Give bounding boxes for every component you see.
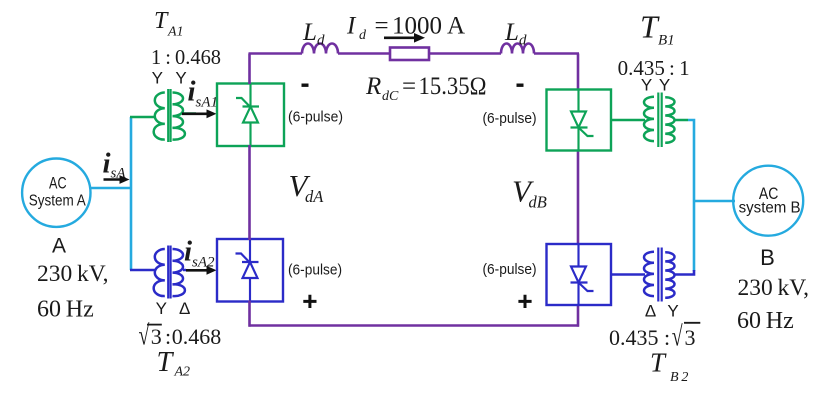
transformer TA2 core (168, 246, 170, 299)
svg-text:T: T (154, 8, 169, 34)
transformer TA2 label (157, 347, 191, 380)
bus A frequency label 60 Hz (37, 297, 94, 323)
U3 6-pulse label (483, 110, 537, 127)
transformer TA1 ratio label 1:0.468 (151, 45, 221, 69)
svg-text:Y: Y (641, 76, 652, 95)
wire: DC bus down to U3 (577, 54, 580, 90)
svg-text:R: R (365, 73, 381, 100)
svg-text:i: i (184, 236, 192, 268)
voltage label V_dB (512, 174, 547, 212)
wire: AC A to junction (91, 187, 132, 190)
transformer TB1 ratio label 0.435:1 (618, 56, 690, 80)
svg-text:I: I (346, 13, 357, 40)
transformer TA2 primary coil (154, 249, 165, 296)
svg-text:A2: A2 (174, 365, 191, 380)
wire: TB2 to AC B junction (674, 270, 694, 275)
wire: junction to TA2 (130, 269, 156, 272)
converter U4 box (6-pulse inverter) (547, 244, 612, 305)
transformer TB1 secondary coil (665, 97, 674, 143)
svg-text:sA2: sA2 (192, 255, 215, 271)
svg-text:(6-pulse): (6-pulse) (288, 262, 342, 279)
svg-text:T: T (650, 348, 667, 378)
wire: TB1 to AC B junction (674, 119, 688, 122)
svg-text:0.435: 0.435 (609, 325, 659, 350)
transformer TA2 winding config Y D (156, 299, 191, 318)
transformer TB1 primary coil (644, 97, 654, 141)
U4 positive terminal + (518, 295, 531, 308)
current label i_sA1 (188, 76, 219, 111)
svg-text:√: √ (672, 321, 683, 352)
inductor Ld left label (302, 19, 325, 49)
svg-text:A1: A1 (167, 24, 184, 39)
converter U3 box (6-pulse inverter) (547, 90, 612, 151)
U3 negative terminal - (517, 84, 524, 87)
wire: DC bus between Ld and Rdc (338, 52, 390, 55)
svg-text:sA1: sA1 (196, 95, 219, 111)
svg-text:(6-pulse): (6-pulse) (483, 261, 537, 278)
svg-text:(6-pulse): (6-pulse) (483, 110, 537, 127)
svg-text:dC: dC (382, 89, 399, 104)
svg-text:L: L (504, 19, 519, 46)
svg-text:Y: Y (667, 301, 678, 320)
svg-text:Δ: Δ (645, 301, 656, 320)
svg-text:dA: dA (305, 187, 324, 206)
node A label (52, 235, 66, 258)
svg-text:Y: Y (156, 299, 167, 318)
wire: DC bus top right segment (534, 52, 579, 55)
U2 positive terminal + (303, 295, 316, 308)
U2 6-pulse label (288, 262, 342, 279)
svg-text:B 2: B 2 (670, 370, 688, 385)
svg-text:60 Hz: 60 Hz (37, 297, 94, 323)
svg-text:B1: B1 (658, 33, 675, 49)
svg-text:d: d (317, 33, 325, 49)
svg-text:230 kV,: 230 kV, (37, 261, 109, 287)
current label i_sA2 (184, 236, 215, 271)
node B label (760, 245, 775, 270)
svg-text:0.468: 0.468 (172, 324, 222, 349)
current label i_sA (103, 148, 127, 182)
svg-text:A: A (52, 235, 66, 258)
transformer TA1 secondary coil (173, 93, 185, 140)
transformer TB1 core (658, 93, 661, 148)
svg-text:230 kV,: 230 kV, (738, 275, 810, 301)
svg-text:60 Hz: 60 Hz (737, 308, 794, 334)
svg-text:System A: System A (29, 193, 87, 210)
svg-text:d: d (359, 28, 367, 43)
wire: DC bus top left segment (249, 52, 303, 55)
transformer TA1 winding config Y Y (152, 69, 187, 88)
current arrow I_d (384, 33, 425, 43)
resistor RdC (390, 48, 429, 61)
AC source: System A circle (22, 159, 90, 227)
svg-text:Δ: Δ (179, 299, 190, 318)
svg-text:dB: dB (529, 192, 547, 211)
bus B voltage label 230 kV (738, 275, 810, 301)
transformer TB2 secondary coil (665, 252, 674, 298)
converter U1 box (6-pulse rectifier) (217, 84, 284, 147)
svg-text::: : (664, 325, 670, 350)
inductor Ld right label (504, 19, 527, 49)
svg-text:1 : 0.468: 1 : 0.468 (151, 45, 221, 69)
bus B frequency label 60 Hz (737, 308, 794, 334)
wire: U1 top to DC bus (248, 54, 251, 85)
transformer TB2 label (650, 348, 688, 386)
transformer TB2 core (658, 248, 661, 302)
svg-text:=: = (402, 73, 416, 100)
transformer TA2 secondary coil (173, 249, 185, 296)
svg-text:i: i (103, 148, 111, 180)
svg-text:T: T (640, 9, 660, 45)
wire: DC return bus (bottom) (249, 324, 580, 327)
U1 6-pulse label (288, 109, 343, 126)
transformer TB2 winding config D Y (645, 301, 679, 320)
thyristor inside U3 (571, 90, 594, 150)
svg-text:A: A (447, 13, 465, 40)
wire: junction to TA1 (130, 116, 156, 119)
svg-text:3: 3 (151, 324, 162, 349)
svg-text:T: T (157, 347, 175, 378)
svg-text:Y: Y (152, 69, 163, 88)
wire: left AC vertical junction (130, 117, 133, 270)
current arrow i_sA2 (186, 266, 217, 275)
svg-text:AC: AC (49, 174, 67, 193)
wire: TA2 secondary stub (183, 269, 186, 272)
svg-text:Y: Y (175, 69, 186, 88)
transformer TA1 core (168, 89, 170, 142)
wire: right AC vertical junction (688, 119, 694, 271)
U1 negative terminal - (302, 84, 309, 87)
resistor value label RdC = 15.35 ohm (365, 73, 487, 104)
transformer TB2 primary coil (644, 252, 654, 296)
svg-text:15.35Ω: 15.35Ω (419, 73, 487, 100)
svg-text:0.435 : 1: 0.435 : 1 (618, 56, 690, 80)
wire: DC bus between Rdc and right Ld (429, 52, 501, 55)
transformer TB1 winding config Y Y (641, 76, 670, 95)
wire: U2 bottom to DC return bus (248, 301, 251, 327)
svg-text:B: B (760, 245, 775, 270)
svg-text:3: 3 (685, 325, 696, 350)
transformer TA1 primary coil (154, 93, 165, 140)
wire: U1 bottom to U2 top (248, 145, 251, 240)
svg-text:system B: system B (739, 200, 801, 217)
transformer TB2 ratio label 0.435:sqrt3 (609, 321, 700, 352)
AC source: system B circle (733, 166, 803, 236)
svg-text:Y: Y (659, 76, 670, 95)
transformer TB1 label (640, 9, 675, 49)
inductor Ld (left) (302, 44, 338, 54)
transformer TA1 label (154, 8, 184, 40)
svg-text:(6-pulse): (6-pulse) (288, 109, 343, 126)
svg-text:=: = (375, 13, 389, 40)
svg-text:i: i (188, 76, 196, 108)
thyristor inside U2 (236, 240, 259, 301)
thyristor inside U1 (236, 84, 259, 145)
svg-text:L: L (302, 19, 317, 46)
U4 6-pulse label (483, 261, 537, 278)
wire: U4 to TB2 (611, 273, 645, 276)
current label I_d = 1000 A (346, 13, 465, 44)
bus A voltage label 230 kV (37, 261, 109, 287)
svg-text::: : (165, 324, 171, 349)
wire: U4 bottom to DC return bus (577, 305, 580, 327)
current arrow i_sA1 (182, 109, 217, 118)
wire: TA1 secondary stub (183, 112, 196, 115)
voltage label V_dA (289, 168, 325, 206)
transformer TA2 ratio label sqrt3:0.468 (139, 320, 222, 351)
current arrow i_sA (104, 175, 130, 184)
inductor Ld (right) (501, 44, 534, 54)
thyristor inside U4 (571, 245, 594, 305)
svg-text:d: d (519, 33, 527, 49)
wire: junction to AC B circle (694, 200, 735, 203)
wire: U3 to TB1 (611, 119, 645, 122)
wire: U3 bottom to U4 top (577, 150, 580, 244)
converter U2 box (6-pulse rectifier) (217, 239, 283, 302)
